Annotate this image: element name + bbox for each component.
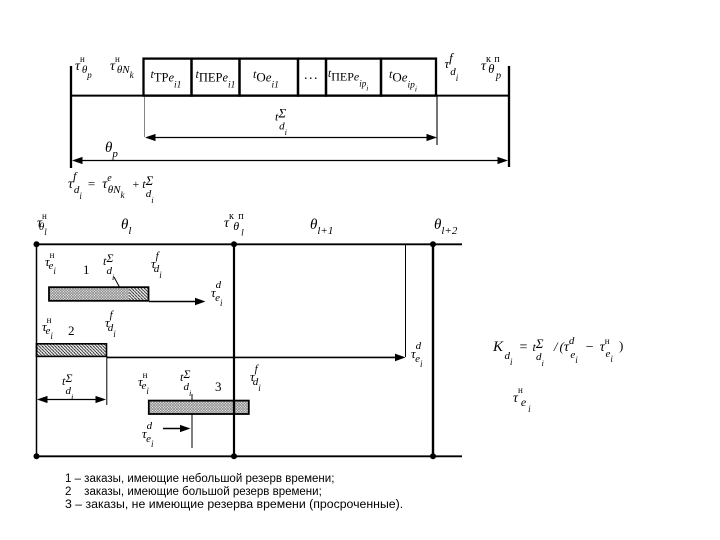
- box t_Oe_i1: [240, 59, 299, 96]
- svg-text:3 – заказы, не имеющие резерва: 3 – заказы, не имеющие резерва времени (…: [65, 497, 403, 511]
- node: thin drop line from box right edge: [436, 96, 438, 145]
- svg-text:τfdi=τeθNk+tΣdi: τfdi=τeθNk+tΣdi: [68, 169, 154, 205]
- svg-text:τнei: τнei: [138, 370, 149, 396]
- box dots: [298, 59, 326, 96]
- box t_Oe_ipi: [381, 59, 436, 96]
- svg-text:Kdi=tΣdi/(τdei−τнei): Kdi=tΣdi/(τdei−τнei): [492, 335, 623, 368]
- svg-text:θl: θl: [121, 217, 131, 237]
- svg-text:τнθp: τнθp: [75, 54, 92, 80]
- svg-text:tОei1: tОei1: [253, 67, 279, 91]
- svg-text:3: 3: [215, 379, 222, 394]
- box t_TRe_i1: [144, 59, 192, 96]
- svg-text:tТРei1: tТРei1: [151, 67, 182, 91]
- arrow row2 long to theta_l+2 region: [107, 356, 403, 358]
- svg-text:tΣdi: tΣdi: [275, 106, 288, 138]
- wire: drop below bar3: [191, 415, 193, 449]
- svg-text:τкпθp: τкпθp: [481, 54, 503, 82]
- wire: vertical x=234: [233, 244, 235, 456]
- svg-text:2: 2: [68, 323, 75, 338]
- leader line from t-sum label to bar1: [114, 277, 120, 288]
- svg-text:τнei: τнei: [45, 250, 56, 276]
- svg-text:tΣdi: tΣdi: [62, 371, 74, 402]
- svg-text:τнθl: τнθl: [37, 211, 47, 237]
- svg-text:τfdi: τfdi: [445, 50, 459, 83]
- arrow small row3: [163, 428, 188, 430]
- node dots on lines: [34, 241, 40, 247]
- wire: left vertical x=36: [36, 244, 38, 456]
- svg-text:τfdi: τfdi: [105, 309, 116, 339]
- wire: vertical x=433: [432, 244, 434, 456]
- arrow t-sum row2 double-headed: [39, 399, 104, 401]
- svg-text:tΣdi: tΣdi: [180, 367, 192, 398]
- svg-text:τнθNk: τнθNk: [110, 54, 135, 80]
- box t_PERe_ipi: [326, 59, 381, 96]
- wire: drop from bar2 right edge: [106, 356, 108, 405]
- arrow row1 to tau-d-e-i: [149, 301, 203, 303]
- bar order 1 (mesh + hatched tail): [49, 287, 129, 301]
- node: thin drop line from box left edge: [144, 96, 146, 137]
- bar order 3 (mesh): [149, 401, 249, 414]
- svg-text:τfdi: τfdi: [151, 250, 162, 280]
- svg-text:τfdi: τfdi: [250, 363, 261, 393]
- svg-text:τкпθl: τкпθl: [224, 211, 248, 239]
- wire: thin vertical x=405.5: [405, 244, 407, 357]
- wire: baseline under boxes: [70, 95, 510, 97]
- svg-text:θp: θp: [105, 140, 118, 160]
- svg-text:tПЕРeipi: tПЕРeipi: [328, 68, 368, 93]
- box t_PERe_i1: [192, 59, 240, 96]
- svg-text:θl+1: θl+1: [310, 217, 333, 237]
- wire: theta_l horizontal top line: [36, 243, 462, 245]
- arrow theta-p double-headed: [74, 160, 506, 162]
- wire: right boundary vertical (tau-kp-theta-p axis): [508, 66, 510, 167]
- svg-text:θl+2: θl+2: [434, 217, 458, 237]
- wire: left boundary vertical (tau-n-theta-p axis): [70, 66, 72, 168]
- bar order 2 (hatched): [37, 344, 107, 357]
- svg-text:tΣdi: tΣdi: [103, 251, 115, 282]
- arrow t-sum-d-i double-headed: [147, 137, 435, 139]
- wire: leader above bar3: [191, 394, 193, 400]
- svg-text:tПЕРei1: tПЕРei1: [196, 67, 236, 91]
- svg-text:τdei: τdei: [211, 279, 223, 308]
- svg-text:1: 1: [83, 262, 90, 277]
- svg-text:...: ...: [304, 68, 319, 83]
- svg-text:tОeipi: tОeipi: [389, 67, 417, 94]
- svg-text:1 – заказы, имеющие небольшой: 1 – заказы, имеющие небольшой резерв вре…: [65, 473, 334, 485]
- svg-text:τdei: τdei: [142, 420, 154, 449]
- svg-text:τнei: τнei: [42, 315, 53, 341]
- wire: vertical through x=234 over bar handled by line above: [233, 400, 235, 415]
- svg-text:τdei: τdei: [411, 340, 423, 369]
- wire: bottom horizontal line: [36, 455, 462, 457]
- svg-text:τнei: τнei: [513, 385, 531, 414]
